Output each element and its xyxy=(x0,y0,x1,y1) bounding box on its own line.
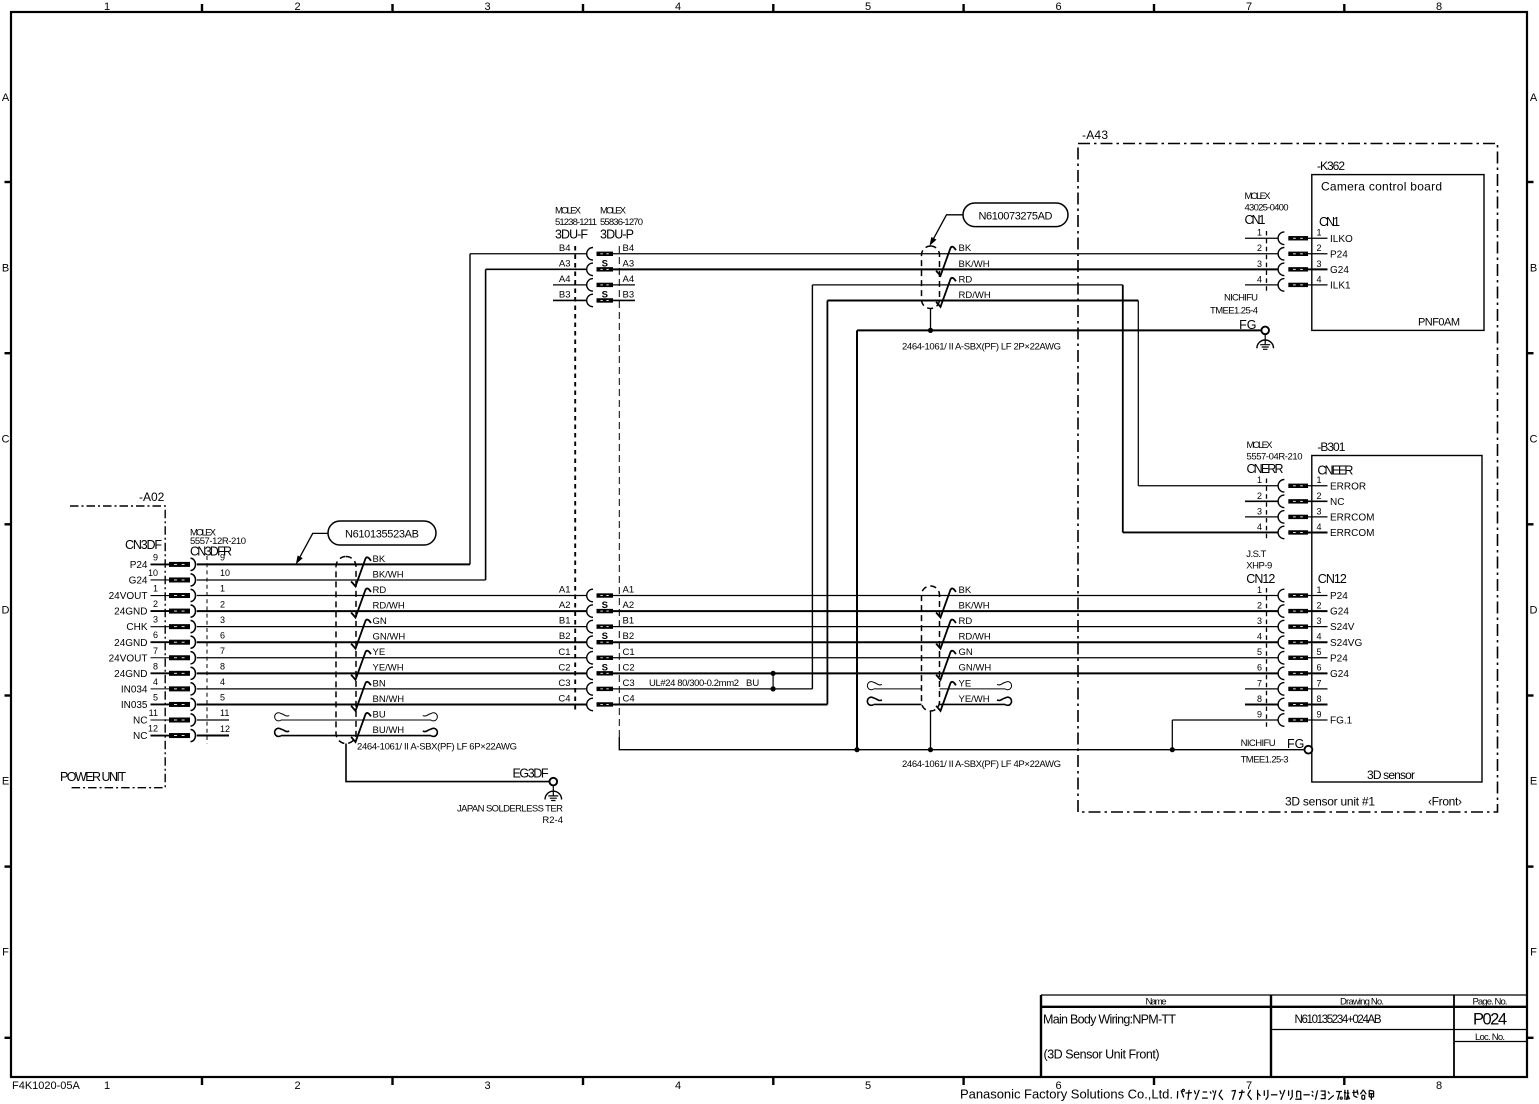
svg-text:F4K1020-05A: F4K1020-05A xyxy=(12,1080,81,1092)
svg-text:BK/WH: BK/WH xyxy=(373,569,404,580)
FG.1 riser x=1172.3 xyxy=(1171,720,1173,750)
svg-text:CN1: CN1 xyxy=(1319,215,1340,229)
svg-text:4: 4 xyxy=(1316,632,1321,642)
twisted pair marker YE/YE/WH (4P cable) xyxy=(936,682,956,711)
3DU pin B4 xyxy=(559,243,634,260)
svg-text:JAPAN SOLDERLESS TER: JAPAN SOLDERLESS TER xyxy=(457,804,563,815)
CN1 pin 2 (P24) xyxy=(1257,243,1348,260)
svg-text:2: 2 xyxy=(220,599,225,609)
CN12 pin 7 xyxy=(1245,678,1328,695)
right ruler tick marks xyxy=(1527,181,1534,183)
2P cable bundle marker (dashed oval) xyxy=(922,246,940,309)
svg-text:2: 2 xyxy=(294,1,300,13)
bottom ruler tick marks xyxy=(201,1077,203,1085)
CN3DF pin 3 (CHK) xyxy=(126,615,225,634)
svg-text:P24: P24 xyxy=(1330,249,1348,260)
3DU pin C3 xyxy=(558,678,634,695)
svg-text:-A43: -A43 xyxy=(1082,128,1108,142)
svg-text:BK: BK xyxy=(959,585,972,596)
svg-text:5: 5 xyxy=(865,1080,871,1092)
ring terminal FG at 3D sensor chassis xyxy=(1305,746,1313,754)
wire 3DU-P A1 to CN12 (4P cable) xyxy=(613,595,1278,597)
junction dot BU jumper top xyxy=(771,671,776,676)
title block xyxy=(1041,995,1527,1077)
svg-text:3: 3 xyxy=(1316,616,1321,626)
svg-text:-A02: -A02 xyxy=(139,490,165,504)
wire RD horizontal run (riser x=812.4 to riser x=1122.8) xyxy=(812,284,1122,286)
svg-text:GN/WH: GN/WH xyxy=(959,663,992,674)
svg-text:-B301: -B301 xyxy=(1317,440,1345,454)
3DU-P mating line (dashed) xyxy=(618,246,620,737)
svg-text:S: S xyxy=(602,289,608,300)
3DU pin B3 xyxy=(559,289,634,306)
svg-text:J.S.T: J.S.T xyxy=(1246,549,1266,560)
spare wire BU (conductor) xyxy=(281,719,431,721)
svg-text:7: 7 xyxy=(1257,678,1262,688)
wire 3DU-P C3 to RD riser xyxy=(613,688,812,690)
wire 3DU-P B2 to CN12 (4P cable) xyxy=(613,641,1278,643)
svg-text:55836-1270: 55836-1270 xyxy=(600,217,643,228)
3DU pin B2 xyxy=(559,631,634,648)
3DU pin C1 xyxy=(558,647,634,664)
top ruler column numbers xyxy=(104,1,1442,13)
svg-text:Panasonic Factory Solutions Co: Panasonic Factory Solutions Co.,Ltd. xyxy=(960,1086,1173,1101)
ground symbol FG (NICHIFU TMEE1.25-4) xyxy=(1261,327,1269,335)
svg-text:S: S xyxy=(602,258,608,269)
svg-text:MOLEX: MOLEX xyxy=(600,206,627,217)
CN3DF pin 10 (G24) xyxy=(129,568,230,587)
svg-text:P24: P24 xyxy=(130,560,148,571)
svg-text:6: 6 xyxy=(153,630,158,640)
svg-text:8: 8 xyxy=(220,662,225,672)
svg-text:S: S xyxy=(602,600,608,611)
svg-text:P024: P024 xyxy=(1473,1011,1507,1029)
svg-text:E: E xyxy=(2,776,9,788)
svg-text:ILKO: ILKO xyxy=(1330,234,1353,245)
svg-text:5: 5 xyxy=(220,693,225,703)
BU jumper wire between C2 and C3 rows xyxy=(772,673,774,689)
svg-text:3: 3 xyxy=(1316,259,1321,269)
svg-text:8: 8 xyxy=(1436,1,1442,13)
svg-text:CN3DF: CN3DF xyxy=(125,538,162,552)
svg-text:BK: BK xyxy=(959,243,972,254)
svg-text:B: B xyxy=(1530,263,1537,275)
left ruler row letters xyxy=(2,92,10,959)
svg-text:RD: RD xyxy=(959,616,973,627)
spare wire YE/WH right conductor xyxy=(940,703,1006,705)
part number capsule N610073275AD xyxy=(963,203,1068,227)
3DU pin A3 xyxy=(559,258,634,275)
FG wire from riser x=857 to NICHIFU ring terminal xyxy=(857,329,1262,331)
svg-text:NC: NC xyxy=(133,731,147,742)
twisted pair marker GN/GN/WH (4P cable) xyxy=(936,651,956,680)
svg-text:1: 1 xyxy=(220,584,225,594)
svg-text:2464-1061/ II A-SBX(PF) LF 2P×: 2464-1061/ II A-SBX(PF) LF 2P×22AWG xyxy=(902,342,1061,353)
svg-text:1: 1 xyxy=(153,584,158,594)
CN1 pin 4 (ILK1) xyxy=(1245,274,1351,291)
svg-text:G24: G24 xyxy=(1330,265,1349,276)
spare wire YE left conductor xyxy=(874,688,922,690)
svg-text:3: 3 xyxy=(484,1,490,13)
svg-text:B1: B1 xyxy=(559,616,571,627)
wire stub 3DU-F B3 left xyxy=(553,299,586,301)
svg-text:2: 2 xyxy=(1316,243,1321,253)
wire from CN3DFR pin 2 (row 24GND) xyxy=(197,610,587,612)
svg-text:4: 4 xyxy=(1257,274,1262,284)
CN1 pin 1 (ILKO) xyxy=(1245,228,1353,245)
svg-text:RD/WH: RD/WH xyxy=(959,632,991,643)
svg-text:9: 9 xyxy=(220,553,225,563)
CN1 pin 3 (G24) xyxy=(1257,259,1349,276)
svg-text:F: F xyxy=(2,947,9,959)
svg-text:B2: B2 xyxy=(623,631,635,642)
spare wire YE/WH left conductor xyxy=(874,703,922,705)
3DU pin C4 xyxy=(558,693,634,710)
CNERR pin 2 (NC) xyxy=(1245,491,1344,508)
svg-text:BK/WH: BK/WH xyxy=(959,600,990,611)
spare wire BU/WH (left coil) xyxy=(275,728,290,736)
wire from CN3DFR pin 5 (row IN035) xyxy=(197,703,587,705)
wire 3DU-P B1 to CN12 (4P cable) xyxy=(613,626,1278,628)
svg-text:10: 10 xyxy=(220,568,230,578)
wire from CN3DFR pin 6 (row 24GND) xyxy=(197,641,587,643)
3DU pin A1 xyxy=(559,585,634,602)
twisted pair marker YE/YE/WH xyxy=(351,651,371,680)
6P cable shield tail to EG3DF xyxy=(346,744,550,782)
svg-text:YE: YE xyxy=(959,678,972,689)
svg-text:A: A xyxy=(1530,92,1538,104)
CNERR pin 4 (ERRCOM) xyxy=(1257,522,1374,539)
3D sensor board -B301 box xyxy=(1312,456,1482,783)
spare wire YE left coil xyxy=(867,682,882,690)
twisted pair marker BK/BK/WH (2P cable) xyxy=(936,247,956,276)
CN12 mating line (dashed) xyxy=(1266,588,1268,727)
CNERR mating line (dashed) xyxy=(1266,479,1268,540)
svg-text:P24: P24 xyxy=(1330,591,1348,602)
svg-text:5: 5 xyxy=(1257,647,1262,657)
svg-text:B1: B1 xyxy=(623,616,635,627)
svg-text:B2: B2 xyxy=(559,631,571,642)
svg-text:S24V: S24V xyxy=(1330,622,1355,633)
svg-text:3: 3 xyxy=(1257,506,1262,516)
svg-text:B4: B4 xyxy=(623,243,635,254)
wire BK/WH riser x=485.6 (CN3DFR pin10 to 3DU-F A3) xyxy=(485,269,487,580)
svg-text:3D sensor unit #1: 3D sensor unit #1 xyxy=(1285,795,1375,809)
wire from CN3DFR pin 1 (row 24VOUT) xyxy=(197,595,587,597)
wire stub CN3DFR pin 11 (NC) xyxy=(197,719,229,721)
wire from CN3DFR pin 4 (row IN034) xyxy=(197,688,587,690)
svg-text:5557-04R-210: 5557-04R-210 xyxy=(1247,452,1303,463)
svg-text:7: 7 xyxy=(1316,678,1321,688)
twisted pair marker BK/BK/WH (4P cable) xyxy=(936,588,956,617)
svg-text:2: 2 xyxy=(1316,600,1321,610)
wire CNERR pin4 horizontal (ERRCOM) xyxy=(1123,531,1278,533)
svg-text:D: D xyxy=(2,605,10,617)
svg-text:Drawing No.: Drawing No. xyxy=(1340,997,1384,1008)
svg-text:1: 1 xyxy=(1316,585,1321,595)
svg-text:3: 3 xyxy=(484,1080,490,1092)
wire 3DU-P C1 to CN12 (4P cable) xyxy=(613,657,1278,659)
svg-text:S: S xyxy=(602,631,608,642)
svg-text:9: 9 xyxy=(1257,709,1262,719)
svg-text:NC: NC xyxy=(1330,497,1344,508)
svg-text:MOLEX: MOLEX xyxy=(555,206,582,217)
wire RD/WH horizontal run (riser x=827.4 to riser x=1138.3) xyxy=(827,299,1138,301)
CN3DF pin 2 (24GND) xyxy=(114,599,225,618)
svg-text:1: 1 xyxy=(104,1,110,13)
svg-text:3: 3 xyxy=(1316,506,1321,516)
svg-text:3DU-P: 3DU-P xyxy=(600,228,634,242)
RD/WH riser x=827.4 (C4 up to 2P cable RD/WH) xyxy=(826,300,828,704)
svg-text:12: 12 xyxy=(148,724,158,734)
svg-text:S24VG: S24VG xyxy=(1330,638,1362,649)
svg-text:Loc. No.: Loc. No. xyxy=(1475,1032,1505,1043)
twisted pair marker BN/BN/WH xyxy=(351,682,371,711)
wire CNERR pin1 horizontal (ERROR) xyxy=(1138,485,1278,487)
CN3DF pin 9 (P24) xyxy=(130,552,225,571)
svg-text:NC: NC xyxy=(133,716,147,727)
wire 3DU-P C2 to CN12 (4P cable) xyxy=(613,672,1278,674)
svg-text:BU: BU xyxy=(746,678,759,689)
svg-text:5: 5 xyxy=(865,1,871,13)
svg-text:9: 9 xyxy=(153,552,158,562)
svg-text:C2: C2 xyxy=(558,662,570,673)
svg-text:E: E xyxy=(1530,776,1537,788)
company name Japanese text (approximated strokes) xyxy=(1177,1089,1373,1100)
svg-text:G24: G24 xyxy=(1330,669,1349,680)
svg-text:PNF0AM: PNF0AM xyxy=(1418,317,1460,329)
wire 3DU-P C4 to RD/WH riser xyxy=(613,703,827,705)
junction dot FG.1 riser to FG wire xyxy=(1170,747,1175,752)
svg-text:3: 3 xyxy=(220,615,225,625)
svg-text:R2-4: R2-4 xyxy=(542,815,563,826)
twisted pair marker RD/RD/WH xyxy=(351,588,371,617)
svg-text:2464-1061/ II A-SBX(PF) LF 4P×: 2464-1061/ II A-SBX(PF) LF 4P×22AWG xyxy=(902,759,1061,770)
svg-text:BN: BN xyxy=(373,678,386,689)
svg-text:ERRCOM: ERRCOM xyxy=(1330,513,1374,524)
junction dot 4P shield to FG wire xyxy=(928,747,933,752)
svg-text:2: 2 xyxy=(294,1080,300,1092)
svg-text:CN12: CN12 xyxy=(1318,572,1347,586)
FG riser x=857 xyxy=(856,330,858,749)
CN3DF pin 7 (24VOUT) xyxy=(109,646,225,665)
svg-text:B3: B3 xyxy=(559,289,571,300)
CN12 pin 2 (G24) xyxy=(1257,600,1349,617)
svg-text:CNERR: CNERR xyxy=(1247,462,1284,476)
svg-text:RD: RD xyxy=(959,274,973,285)
svg-text:EG3DF: EG3DF xyxy=(513,767,549,781)
svg-text:CHK: CHK xyxy=(126,622,147,633)
svg-text:1: 1 xyxy=(104,1080,110,1092)
wire 3DU-F A3 left lead xyxy=(486,268,587,270)
svg-text:A3: A3 xyxy=(623,258,635,269)
svg-text:A1: A1 xyxy=(559,585,571,596)
wire from CN3DFR pin 3 (row CHK) xyxy=(197,626,587,628)
svg-text:-K362: -K362 xyxy=(1317,159,1345,173)
3DU pin C2 xyxy=(558,662,634,679)
wire stub 3DU-F A4 left xyxy=(553,284,586,286)
svg-text:GN: GN xyxy=(373,616,387,627)
svg-text:IN034: IN034 xyxy=(121,684,148,695)
wire 3DU-P A2 to CN12 (4P cable) xyxy=(613,610,1278,612)
wire BK riser x=470 (CN3DFR pin9 to 3DU-F B4) xyxy=(469,254,471,565)
wire from CN3DFR pin 7 (row 24VOUT) xyxy=(197,657,587,659)
svg-text:C: C xyxy=(2,434,10,446)
wire RD/WH riser x=1138.3 down to CNERR pin1 xyxy=(1137,300,1139,485)
wire from CN3DFR pin 9 (row P24) xyxy=(197,563,470,565)
svg-text:2: 2 xyxy=(1257,600,1262,610)
svg-text:5: 5 xyxy=(153,692,158,702)
twisted pair marker BU/BU/WH xyxy=(351,713,371,742)
svg-text:6: 6 xyxy=(1316,663,1321,673)
svg-text:2464-1061/ II A-SBX(PF) LF 6P×: 2464-1061/ II A-SBX(PF) LF 6P×22AWG xyxy=(357,742,517,753)
twisted pair marker RD/RD/WH (2P cable) xyxy=(936,278,956,307)
svg-text:51238-1211: 51238-1211 xyxy=(555,217,597,228)
2P cable shield tail xyxy=(930,309,932,331)
svg-text:FG: FG xyxy=(1239,318,1256,332)
svg-text:G24: G24 xyxy=(1330,607,1349,618)
CN3DF pin 1 (24VOUT) xyxy=(109,584,225,603)
bottom ruler column numbers xyxy=(104,1080,1442,1092)
svg-text:6: 6 xyxy=(1257,663,1262,673)
svg-text:BU: BU xyxy=(373,709,386,720)
svg-text:BK/WH: BK/WH xyxy=(959,259,990,270)
svg-text:2: 2 xyxy=(153,599,158,609)
svg-text:MOLEX: MOLEX xyxy=(1247,440,1274,451)
junction dot BU jumper bottom xyxy=(771,686,776,691)
spare wire YE/WH left coil xyxy=(867,697,882,705)
CN3DF pin 5 (IN035) xyxy=(121,692,225,711)
svg-text:24VOUT: 24VOUT xyxy=(109,653,148,664)
svg-text:11: 11 xyxy=(149,708,158,718)
junction dot FG riser x=857 xyxy=(854,747,859,752)
svg-text:7: 7 xyxy=(153,646,158,656)
svg-text:C: C xyxy=(1530,434,1538,446)
svg-text:4: 4 xyxy=(675,1,681,13)
svg-text:6: 6 xyxy=(220,630,225,640)
3DU pin A2 xyxy=(559,600,634,617)
svg-text:B3: B3 xyxy=(623,289,635,300)
power unit enclosure -A02 (dash-dot outline) xyxy=(70,506,165,788)
svg-text:ERROR: ERROR xyxy=(1330,481,1366,492)
3D sensor unit enclosure -A43 (dash-dot box) xyxy=(1078,144,1498,813)
svg-text:2: 2 xyxy=(1316,491,1321,501)
wire from CN3DFR pin 10 (row G24) xyxy=(197,579,486,581)
svg-text:CN12: CN12 xyxy=(1246,572,1275,586)
svg-text:C1: C1 xyxy=(558,647,570,658)
4P cable bundle marker (dashed oval) xyxy=(922,586,940,711)
svg-text:Name: Name xyxy=(1146,997,1167,1008)
wire stub 3DU-P B3 right xyxy=(613,299,635,301)
CN12 pin 1 (P24) xyxy=(1257,585,1348,602)
spare wire BU (left coil) xyxy=(275,713,290,721)
svg-text:4: 4 xyxy=(1257,522,1262,532)
svg-text:4: 4 xyxy=(153,677,158,687)
3DU pin B1 xyxy=(559,616,634,633)
svg-text:ILK1: ILK1 xyxy=(1330,281,1351,292)
svg-text:F: F xyxy=(1530,947,1537,959)
leader line for N610135523AB xyxy=(299,533,328,559)
RD riser x=812.4 (C3 up to 2P cable RD) xyxy=(811,285,813,689)
svg-text:BU/WH: BU/WH xyxy=(373,725,405,736)
wire from CN3DFR pin 8 (row 24GND) xyxy=(197,672,587,674)
svg-text:2: 2 xyxy=(1257,243,1262,253)
ground symbol EG3DF (ring terminal + earth) xyxy=(550,778,558,786)
svg-text:4: 4 xyxy=(1257,632,1262,642)
svg-text:YE/WH: YE/WH xyxy=(373,663,404,674)
svg-text:2: 2 xyxy=(1257,491,1262,501)
spare wire BU/WH (conductor) xyxy=(281,735,431,737)
CNERR pin 3 (ERRCOM) xyxy=(1245,506,1374,523)
svg-text:8: 8 xyxy=(1316,694,1321,704)
CN1 mating line (dashed) xyxy=(1266,231,1268,292)
CN12 pin 3 (S24V) xyxy=(1257,616,1355,633)
CN3DF pin 6 (24GND) xyxy=(114,630,225,649)
spare wire YE/WH right coil xyxy=(997,697,1012,705)
junction dot 2P shield to FG wire xyxy=(928,328,933,333)
svg-text:GN: GN xyxy=(959,647,973,658)
svg-text:S: S xyxy=(602,662,608,673)
spare wire YE right conductor xyxy=(940,688,1006,690)
svg-text:YE: YE xyxy=(373,647,386,658)
twisted pair marker GN/GN/WH xyxy=(351,620,371,649)
svg-text:C2: C2 xyxy=(623,662,635,673)
svg-text:7: 7 xyxy=(220,646,225,656)
svg-text:C4: C4 xyxy=(558,693,570,704)
FG bottom collector wire xyxy=(619,737,1305,750)
svg-text:A1: A1 xyxy=(623,585,635,596)
leader line for N610073275AD xyxy=(932,215,963,241)
CN12 pin 4 (S24VG) xyxy=(1257,632,1362,649)
svg-text:12: 12 xyxy=(220,724,230,734)
svg-text:P24: P24 xyxy=(1330,653,1348,664)
svg-text:A2: A2 xyxy=(559,600,571,611)
svg-text:TMEE1.25-4: TMEE1.25-4 xyxy=(1210,306,1258,317)
svg-text:XHP-9: XHP-9 xyxy=(1246,561,1272,572)
CN12 pin 9 (FG.1) xyxy=(1257,709,1353,726)
6P cable bundle marker (dashed oval) xyxy=(336,557,356,744)
wire stub 3DU-P A4 right xyxy=(613,284,635,286)
svg-text:GN/WH: GN/WH xyxy=(373,632,406,643)
wire stub CN3DFR pin 12 (NC) xyxy=(197,735,229,737)
svg-text:CNEER: CNEER xyxy=(1317,464,1353,478)
svg-text:24GND: 24GND xyxy=(114,607,147,618)
svg-text:C4: C4 xyxy=(623,693,635,704)
svg-text:1: 1 xyxy=(1316,475,1321,485)
svg-text:3DU-F: 3DU-F xyxy=(555,228,588,242)
left ruler tick marks xyxy=(5,181,12,183)
wire 3DU-F B4 left lead xyxy=(470,253,586,255)
svg-text:NICHIFU: NICHIFU xyxy=(1241,738,1276,749)
svg-text:3D sensor: 3D sensor xyxy=(1367,768,1415,782)
svg-text:Main Body Wiring:NPM-TT: Main Body Wiring:NPM-TT xyxy=(1043,1013,1176,1027)
svg-text:BK: BK xyxy=(373,554,386,565)
wire 3DU-P B4 to CN1 pin2 (2P cable BK) xyxy=(613,253,1278,255)
svg-text:FG: FG xyxy=(1287,737,1304,751)
svg-text:C1: C1 xyxy=(623,647,635,658)
svg-text:4: 4 xyxy=(220,677,225,687)
CN3DF pin 8 (24GND) xyxy=(114,661,225,680)
svg-text:9: 9 xyxy=(1316,709,1321,719)
svg-text:RD: RD xyxy=(373,585,387,596)
svg-text:RD/WH: RD/WH xyxy=(959,290,991,301)
3DU-F mating line (bold dashed) xyxy=(574,246,576,710)
svg-text:POWER UNIT: POWER UNIT xyxy=(60,770,126,784)
leader arrowhead xyxy=(296,556,303,565)
CN3DF pin 12 (NC) xyxy=(133,724,230,743)
svg-text:G24: G24 xyxy=(129,576,148,587)
svg-text:UL#24 80/300-0.2mm2: UL#24 80/300-0.2mm2 xyxy=(649,678,739,689)
